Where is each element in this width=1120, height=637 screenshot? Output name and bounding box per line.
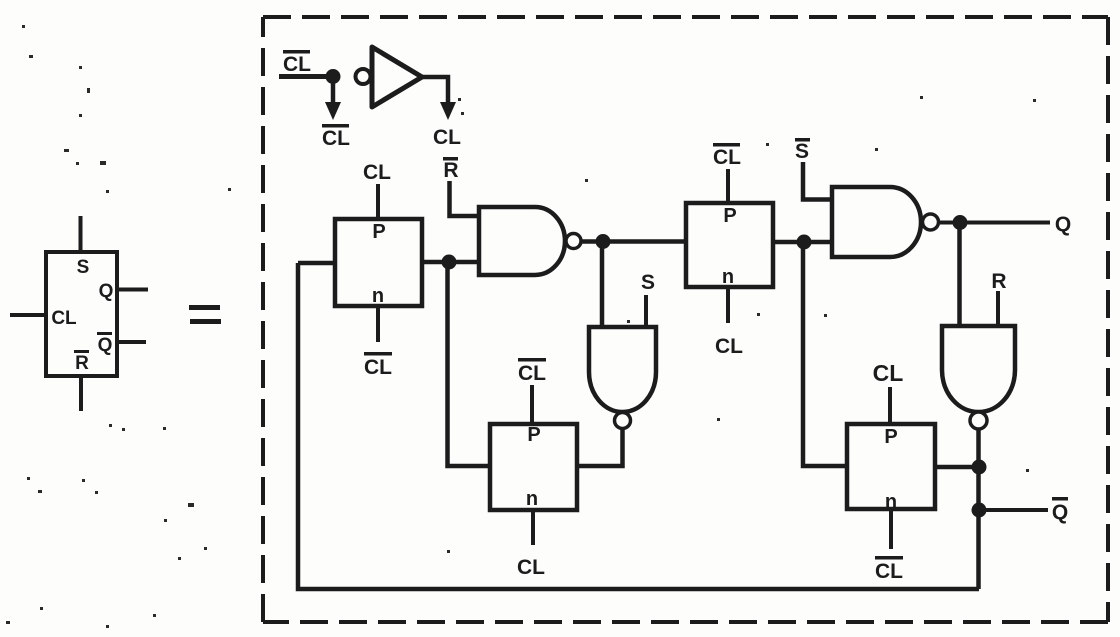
svg-text:CL: CL <box>51 308 77 329</box>
svg-text:S: S <box>641 271 655 294</box>
svg-text:CL: CL <box>517 556 545 579</box>
inverter input bubble <box>356 69 371 84</box>
svg-text:S: S <box>795 140 809 163</box>
pin CL left of flip-flop <box>10 308 77 329</box>
wire box X2 right to nand G2 <box>773 240 832 245</box>
svg-text:CL: CL <box>322 127 350 150</box>
junction node Q <box>953 215 968 230</box>
svg-text:P: P <box>527 424 540 446</box>
nand gate G4 output bubble <box>970 412 987 429</box>
junction node A <box>442 255 457 270</box>
svg-text:R: R <box>443 159 458 182</box>
nand gate G3 vertical <box>589 327 656 412</box>
transmission gate box X4 <box>847 424 935 513</box>
flip-flop symbol box <box>46 252 117 376</box>
wire node Q down to nand G4 <box>957 223 962 327</box>
wire CL-bar stub below box X4 <box>889 509 893 549</box>
junction node B <box>596 234 611 249</box>
wire feedback left vertical <box>298 263 979 589</box>
svg-text:R: R <box>75 353 89 374</box>
wire inverter input <box>279 74 333 79</box>
wire S-bar to nand G2 <box>803 162 834 200</box>
wire S stub into nand G3 <box>644 295 648 327</box>
pin Q-bar right of flip-flop <box>97 332 146 356</box>
arrow down to CL-bar net label <box>325 77 341 121</box>
svg-text:Q: Q <box>98 335 113 356</box>
dashed enclosure border <box>263 17 1108 622</box>
wire Q-bar output <box>979 508 1048 512</box>
svg-text:CL: CL <box>875 560 903 583</box>
svg-text:Q: Q <box>1052 501 1068 524</box>
net label CL-bar below arrow <box>322 124 350 150</box>
wire node A down to box X3 <box>448 262 491 466</box>
svg-text:S: S <box>77 257 90 278</box>
wire G2 output to Q <box>938 221 1050 225</box>
pin Q right of flip-flop <box>99 281 148 302</box>
svg-text:Q: Q <box>99 281 114 302</box>
svg-text:n: n <box>372 285 384 307</box>
svg-text:n: n <box>722 266 734 288</box>
pin R-bar bottom of flip-flop <box>74 350 89 411</box>
nand gate G2 output bubble <box>923 214 939 230</box>
wire CL stub below box X3 <box>531 510 535 545</box>
transmission gate box X2 <box>686 203 773 288</box>
wire CL stub into box X1 <box>376 184 380 230</box>
svg-text:CL: CL <box>873 360 904 386</box>
wire CL-bar stub below box X1 <box>376 306 380 342</box>
svg-text:CL: CL <box>715 335 743 358</box>
transmission gate box X1 <box>335 219 422 307</box>
wire CL stub below box X2 <box>726 287 730 323</box>
net label CL-bar below box X4 <box>875 556 903 583</box>
svg-text:CL: CL <box>433 126 461 149</box>
wire node C down to box X4 <box>803 242 847 466</box>
junction node Q-bar <box>972 503 987 518</box>
wire box X4 right to node D <box>935 465 979 470</box>
net label CL-bar below box X1 <box>364 352 392 379</box>
inverter triangle <box>372 47 422 107</box>
svg-text:P: P <box>884 426 897 448</box>
svg-text:CL: CL <box>364 356 392 379</box>
wire G3 output to box X3 right <box>577 428 623 466</box>
nand gate G1 <box>479 207 565 275</box>
nand gate G4 vertical <box>942 326 1015 412</box>
wire G4 output down to feedback <box>976 428 981 589</box>
svg-text:CL: CL <box>713 146 741 169</box>
svg-text:CL: CL <box>283 53 311 76</box>
wire R stub into nand G4 <box>996 291 1000 326</box>
label Q-bar output <box>1052 497 1068 524</box>
wire CL-bar stub into box X3 <box>530 385 534 424</box>
svg-text:P: P <box>723 205 736 227</box>
junction node C <box>797 235 812 250</box>
wire node B down to nand G3 <box>600 242 605 328</box>
nand gate G2 <box>832 187 921 257</box>
pin S top of flip-flop <box>77 216 90 278</box>
wire box X1 left to feedback <box>298 261 335 266</box>
nand gate G1 output bubble <box>566 234 581 249</box>
wire R-bar to nand gate G1 <box>450 181 480 216</box>
wire inverter output <box>419 77 448 104</box>
equals sign <box>189 305 221 324</box>
wire CL stub into box X4 <box>888 387 892 424</box>
net label CL-bar above box X2 <box>713 143 741 169</box>
junction node D <box>972 460 987 475</box>
wire box X1 right to nand G1 <box>422 260 479 265</box>
arrow down to CL net label <box>440 102 456 120</box>
svg-text:CL: CL <box>518 362 546 385</box>
svg-text:CL: CL <box>363 161 391 184</box>
wire G1 output to box X2 <box>581 239 686 244</box>
junction at inverter input <box>326 69 341 84</box>
net label CL-bar above box X3 <box>518 358 546 385</box>
net label CL-bar inverter input <box>283 50 311 76</box>
net label S-bar input <box>795 138 810 163</box>
nand gate G3 output bubble <box>615 413 631 429</box>
svg-text:Q: Q <box>1055 213 1071 236</box>
svg-text:n: n <box>526 488 538 510</box>
transmission gate box X3 <box>490 424 577 510</box>
svg-text:P: P <box>372 221 385 243</box>
net label R-bar top input <box>443 157 459 182</box>
svg-text:R: R <box>991 270 1006 293</box>
wire CL-bar stub into box X2 <box>726 169 730 213</box>
